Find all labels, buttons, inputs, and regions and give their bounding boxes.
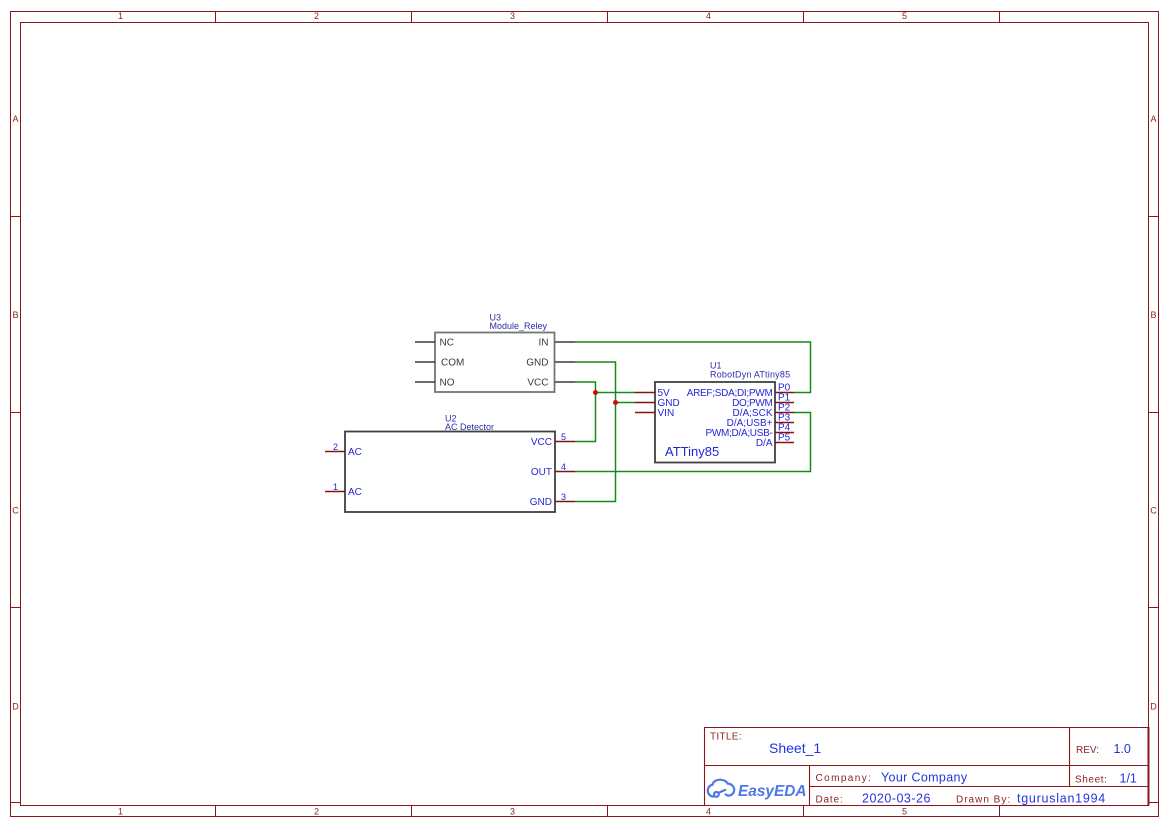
svg-text:GND: GND — [526, 358, 548, 369]
svg-text:EasyEDA: EasyEDA — [738, 783, 806, 800]
svg-text:COM: COM — [441, 358, 464, 369]
svg-text:NO: NO — [440, 378, 455, 389]
svg-text:VCC: VCC — [531, 437, 552, 448]
svg-text:Drawn By:: Drawn By: — [956, 795, 1011, 806]
svg-text:2020-03-26: 2020-03-26 — [862, 792, 931, 806]
svg-text:C: C — [12, 506, 19, 516]
svg-text:tguruslan1994: tguruslan1994 — [1017, 792, 1106, 806]
svg-text:5: 5 — [561, 432, 566, 442]
svg-text:OUT: OUT — [531, 467, 552, 478]
svg-text:B: B — [12, 310, 18, 320]
svg-text:3: 3 — [510, 807, 515, 817]
svg-text:Sheet:: Sheet: — [1075, 775, 1108, 786]
svg-text:IN: IN — [539, 338, 549, 349]
svg-text:P5: P5 — [778, 433, 791, 444]
svg-text:Company:: Company: — [816, 773, 873, 784]
svg-text:VIN: VIN — [658, 408, 675, 419]
svg-text:NC: NC — [440, 338, 454, 349]
svg-text:4: 4 — [706, 11, 711, 21]
svg-text:D: D — [12, 702, 19, 712]
svg-text:VCC: VCC — [527, 378, 548, 389]
svg-text:D/A: D/A — [756, 438, 773, 449]
svg-text:RobotDyn ATtiny85: RobotDyn ATtiny85 — [710, 370, 790, 380]
svg-text:Date:: Date: — [816, 795, 844, 806]
svg-text:AC: AC — [348, 447, 362, 458]
svg-text:REV:: REV: — [1076, 745, 1099, 756]
svg-text:3: 3 — [561, 492, 566, 502]
svg-text:Sheet_1: Sheet_1 — [769, 740, 821, 756]
svg-text:1: 1 — [333, 482, 338, 492]
svg-text:2: 2 — [314, 11, 319, 21]
svg-text:1: 1 — [118, 11, 123, 21]
svg-text:1.0: 1.0 — [1114, 742, 1131, 756]
svg-text:4: 4 — [706, 807, 711, 817]
svg-text:D: D — [1150, 702, 1157, 712]
svg-text:2: 2 — [314, 807, 319, 817]
svg-text:A: A — [12, 114, 18, 124]
svg-text:1: 1 — [118, 807, 123, 817]
svg-text:ATTiny85: ATTiny85 — [665, 444, 719, 459]
svg-text:AC: AC — [348, 487, 362, 498]
svg-text:1/1: 1/1 — [1120, 772, 1137, 786]
svg-text:2: 2 — [333, 442, 338, 452]
svg-text:GND: GND — [530, 497, 552, 508]
svg-text:Module_Reley: Module_Reley — [490, 321, 548, 331]
svg-text:3: 3 — [510, 11, 515, 21]
svg-text:5: 5 — [902, 11, 907, 21]
svg-text:Your Company: Your Company — [881, 771, 968, 785]
svg-text:TITLE:: TITLE: — [710, 732, 742, 743]
svg-text:B: B — [1150, 310, 1156, 320]
svg-text:5: 5 — [902, 807, 907, 817]
svg-text:A: A — [1150, 114, 1156, 124]
svg-text:4: 4 — [561, 462, 566, 472]
svg-text:C: C — [1150, 506, 1157, 516]
svg-text:AC Detector: AC Detector — [445, 422, 494, 432]
